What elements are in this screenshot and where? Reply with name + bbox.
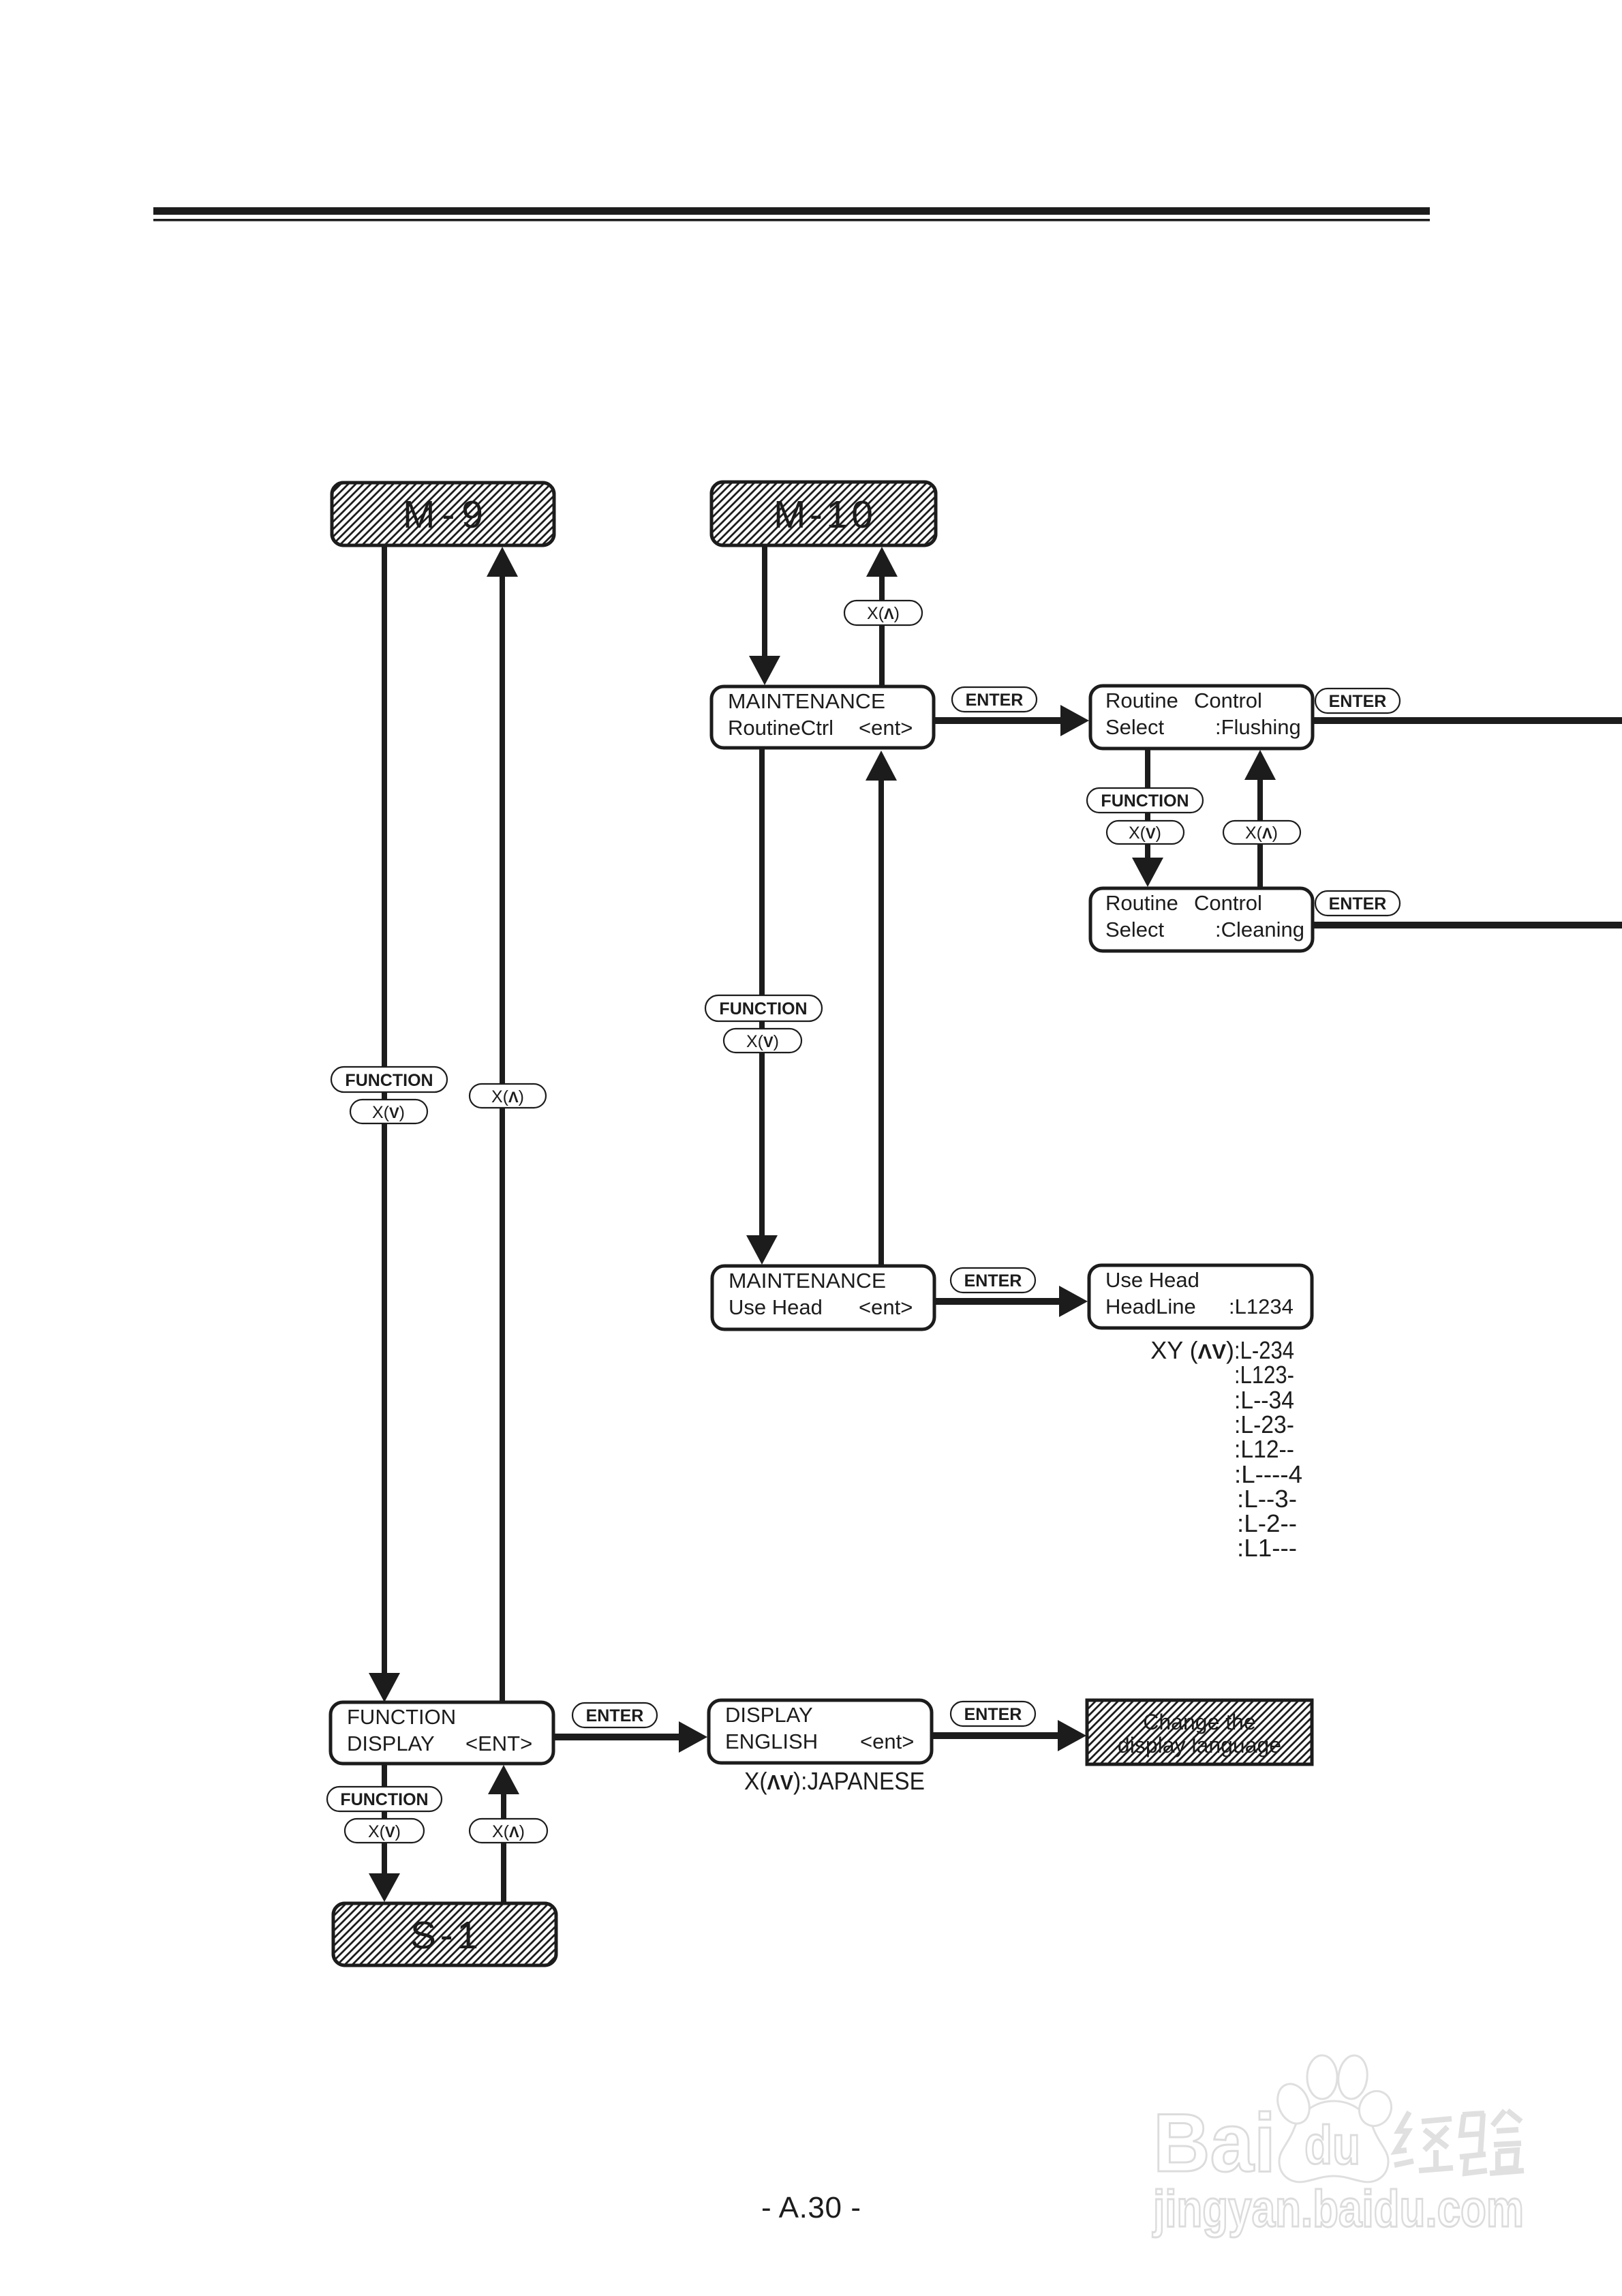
svg-text:MAINTENANCE: MAINTENANCE (728, 689, 885, 713)
svg-text:X(V): X(V) (372, 1103, 405, 1122)
button FUNCTION (M-9 column) (331, 1067, 447, 1092)
svg-text::L--34: :L--34 (1234, 1386, 1294, 1414)
arrow FUNCTION DISPLAY to DISPLAY ENGLISH (553, 1721, 707, 1753)
button X(V) (bottom) (345, 1819, 424, 1843)
box S-1 (333, 1903, 556, 1965)
wire M-9 down to FUNCTION DISPLAY (369, 544, 400, 1702)
svg-text::L-234: :L-234 (1234, 1336, 1294, 1364)
box FUNCTION DISPLAY (331, 1702, 553, 1764)
svg-text::Flushing: :Flushing (1215, 715, 1301, 739)
watermark jing char (1394, 2112, 1453, 2171)
wire up into RoutineCtrl menu (866, 751, 897, 1267)
svg-text:<ENT>: <ENT> (465, 1732, 532, 1755)
svg-text:Use Head: Use Head (729, 1295, 823, 1319)
button FUNCTION (bottom) (327, 1787, 442, 1811)
box Routine Control Flushing (1090, 686, 1313, 749)
svg-text:FUNCTION: FUNCTION (1101, 791, 1189, 811)
svg-text:Control: Control (1194, 891, 1262, 915)
svg-text:display language: display language (1118, 1733, 1281, 1757)
svg-text:ENTER: ENTER (964, 1705, 1022, 1724)
button FUNCTION (Routine column) (1087, 788, 1203, 813)
watermark paw toes (1272, 2079, 1315, 2128)
box M-10 (711, 482, 936, 545)
button ENTER (Use Head) (951, 1268, 1035, 1293)
button FUNCTION (M-10 column) (705, 995, 822, 1021)
svg-text:du: du (1304, 2115, 1360, 2175)
wire Cleaning up to Flushing (1244, 750, 1276, 889)
svg-text:FUNCTION: FUNCTION (347, 1705, 456, 1729)
svg-text::L123-: :L123- (1234, 1361, 1294, 1389)
svg-text:FUNCTION: FUNCTION (345, 1071, 433, 1090)
svg-text:X(Λ): X(Λ) (1245, 824, 1278, 843)
svg-text:FUNCTION: FUNCTION (340, 1790, 428, 1809)
svg-text:ENTER: ENTER (1329, 692, 1387, 711)
button ENTER (Cleaning) (1315, 891, 1400, 916)
button ENTER (RoutineCtrl) (952, 687, 1037, 712)
svg-text:ENTER: ENTER (966, 691, 1024, 710)
box Use Head HeadLine (1089, 1265, 1312, 1328)
svg-text:Select: Select (1105, 715, 1165, 739)
box MAINTENANCE Use Head (712, 1266, 934, 1329)
svg-text::L1---: :L1--- (1237, 1534, 1297, 1562)
wire up into M-10 (866, 547, 898, 687)
svg-text:Change the: Change the (1143, 1710, 1255, 1734)
button X(V) (Routine column) (1107, 821, 1184, 844)
button X(A) (above RoutineCtrl) (844, 601, 922, 625)
svg-text:Control: Control (1194, 689, 1262, 712)
watermark paw palm (1279, 2101, 1388, 2182)
wire RoutineCtrl down to Use Head menu (746, 748, 778, 1265)
svg-text:S-1: S-1 (410, 1914, 478, 1957)
arrow Use Head menu to Use Head display (934, 1286, 1088, 1317)
svg-text:DISPLAY: DISPLAY (347, 1732, 435, 1755)
svg-text::L-2--: :L-2-- (1237, 1509, 1297, 1537)
button X(A) (M-9 column) (470, 1084, 546, 1108)
svg-text:X(V): X(V) (368, 1822, 401, 1841)
svg-text:ENTER: ENTER (964, 1271, 1022, 1290)
top rule thick (153, 207, 1430, 215)
svg-text:- A.30 -: - A.30 - (761, 2191, 861, 2224)
svg-text:X(Λ): X(Λ) (491, 1087, 524, 1106)
box MAINTENANCE RoutineCtrl (711, 686, 934, 748)
svg-text:Select: Select (1105, 918, 1165, 941)
svg-text:X(V): X(V) (1129, 824, 1161, 843)
svg-text:jingyan.baidu.com: jingyan.baidu.com (1152, 2180, 1524, 2238)
svg-text:<ent>: <ent> (859, 716, 913, 740)
arrow Cleaning to page edge (1313, 922, 1622, 928)
box DISPLAY ENGLISH (709, 1700, 932, 1763)
svg-text:FUNCTION: FUNCTION (719, 999, 807, 1018)
top rule thin (153, 219, 1430, 222)
svg-text::Cleaning: :Cleaning (1215, 918, 1304, 941)
svg-text:MAINTENANCE: MAINTENANCE (729, 1269, 886, 1293)
svg-text::L12--: :L12-- (1234, 1435, 1294, 1463)
watermark baidu jingyan logo (1153, 2054, 1397, 2189)
svg-text:ENTER: ENTER (586, 1706, 644, 1725)
svg-text:X(Λ): X(Λ) (492, 1822, 525, 1841)
wire FUNCTION DISPLAY down to S-1 (369, 1762, 400, 1902)
svg-text:RoutineCtrl: RoutineCtrl (728, 716, 833, 740)
svg-text::L-23-: :L-23- (1234, 1410, 1294, 1438)
svg-text:Routine: Routine (1105, 891, 1178, 915)
wire M-10 down to MAINTENANCE RoutineCtrl (749, 545, 780, 685)
button ENTER (DISPLAY ENGLISH) (951, 1702, 1035, 1726)
svg-text:<ent>: <ent> (860, 1729, 914, 1753)
svg-text:ENTER: ENTER (1329, 894, 1387, 913)
arrow DISPLAY ENGLISH to change language (932, 1720, 1086, 1751)
svg-text:Routine: Routine (1105, 689, 1178, 712)
button X(V) (M-10 column) (724, 1029, 801, 1053)
svg-text:ENGLISH: ENGLISH (725, 1729, 818, 1753)
button ENTER (Flushing) (1315, 689, 1400, 713)
svg-text::L----4: :L----4 (1234, 1460, 1302, 1488)
watermark yan char (1460, 2111, 1524, 2173)
wire S-1 up to FUNCTION DISPLAY (488, 1765, 519, 1904)
box Routine Control Cleaning (1090, 888, 1313, 951)
svg-text:DISPLAY: DISPLAY (725, 1703, 813, 1727)
svg-text:HeadLine: HeadLine (1105, 1295, 1196, 1318)
button ENTER (FUNCTION DISPLAY) (572, 1703, 657, 1727)
svg-text::L--3-: :L--3- (1237, 1485, 1297, 1513)
svg-text:X(V): X(V) (746, 1032, 779, 1051)
note XY head selection list (1150, 1336, 1302, 1562)
box change display language result (1087, 1700, 1312, 1764)
button X(A) (bottom) (470, 1819, 547, 1843)
svg-text:X(Λ): X(Λ) (867, 604, 900, 623)
button X(V) (M-9 column) (350, 1100, 427, 1123)
wire up into M-9 (487, 547, 518, 1702)
svg-text:XY (ΛV): XY (ΛV) (1150, 1336, 1234, 1364)
svg-text::L1234: :L1234 (1229, 1295, 1294, 1318)
svg-text:M-9: M-9 (403, 493, 483, 537)
box M-9 (332, 483, 554, 545)
svg-text:Use Head: Use Head (1105, 1268, 1199, 1292)
arrow Flushing to page edge (1313, 717, 1622, 724)
arrow RoutineCtrl to Routine Control Flushing (934, 705, 1089, 736)
button X(A) (Routine column) (1223, 821, 1300, 844)
svg-text:<ent>: <ent> (859, 1295, 913, 1319)
wire Flushing down to Cleaning (1132, 747, 1163, 887)
svg-text:Bai: Bai (1153, 2096, 1276, 2189)
svg-text:X(ΛV):JAPANESE: X(ΛV):JAPANESE (744, 1767, 925, 1795)
